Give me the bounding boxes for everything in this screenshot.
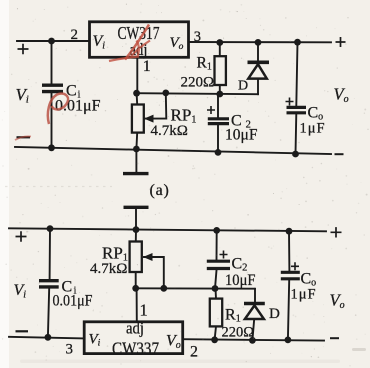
- scan smudge artifacts: [20, 360, 340, 364]
- node adj-RP1 (b): [132, 285, 139, 292]
- potentiometer RP1 (a) wiper arrowhead: [144, 115, 154, 123]
- node adj-wiper (b): [160, 285, 167, 292]
- wire C2 column (b): [215, 230, 217, 288]
- op-amp box U2 CW337: [84, 322, 183, 354]
- wire Co column (b): [288, 231, 290, 340]
- node Ci-top (b): [47, 225, 54, 232]
- node Co-bottom (b): [285, 337, 292, 344]
- svg-text:1μF: 1μF: [300, 121, 326, 137]
- red watermark stroke over Ci (a): [48, 94, 68, 124]
- terminal plus right (a): [336, 37, 346, 47]
- svg-text:3: 3: [66, 342, 74, 358]
- terminal minus right (a): [335, 153, 344, 155]
- svg-text:2: 2: [71, 27, 79, 43]
- svg-text:220Ω: 220Ω: [222, 325, 255, 341]
- node R1-top (a): [216, 39, 223, 46]
- ground symbol (a): [123, 172, 149, 175]
- terminal minus left (a): [17, 136, 31, 138]
- svg-text:1: 1: [143, 58, 151, 75]
- wire R1 leads (a): [219, 43, 221, 95]
- diode D (a) cathode bar: [248, 60, 270, 64]
- capacitor C2 (a) polarity plus: [207, 106, 215, 114]
- node ground-rail (b): [133, 226, 140, 233]
- node adj-wiper (a): [162, 90, 169, 97]
- diode D (a) triangle: [248, 64, 266, 78]
- wire pin1 (a): [136, 58, 138, 93]
- svg-text:2: 2: [190, 344, 198, 361]
- svg-text:CW337: CW337: [112, 339, 159, 359]
- capacitor C2 (b) polarity plus: [220, 251, 228, 259]
- wire top rail right (a) pin3 to +: [190, 41, 332, 43]
- node D-top (a): [255, 39, 262, 46]
- wire diode leads (b): [252, 289, 255, 341]
- terminal plus right (b): [331, 227, 342, 237]
- node Ci-top (a): [48, 38, 55, 45]
- capacitor Ci (b) plates: [39, 281, 59, 287]
- capacitor Ci (a) plates: [42, 85, 63, 91]
- svg-text:1μF: 1μF: [291, 287, 317, 303]
- wire RP1 wiper (a): [145, 93, 166, 119]
- wire top rail left (a): [17, 40, 89, 42]
- red watermark stroke over adj: [109, 41, 150, 62]
- node Co-top (b): [286, 228, 293, 235]
- svg-text:220Ω: 220Ω: [181, 75, 215, 91]
- node adj-R1 (a): [216, 91, 223, 98]
- potentiometer RP1 (b) wiper arrowhead: [143, 253, 153, 261]
- terminal plus left (a): [18, 44, 29, 54]
- node adj-pin1 (a): [133, 90, 140, 97]
- red watermark tick at minus (a): [15, 136, 31, 140]
- wire C_i column (a): [51, 41, 53, 148]
- svg-text:D: D: [269, 306, 280, 322]
- terminal plus left (b): [16, 231, 27, 241]
- node R1-bottom (b): [211, 336, 218, 343]
- node RP1-bottom (a): [133, 146, 140, 153]
- diode D (b) triangle: [245, 305, 264, 319]
- wire C2 column (a): [217, 94, 219, 152]
- potentiometer RP1 (b) body: [130, 242, 142, 273]
- svg-text:4.7kΩ: 4.7kΩ: [90, 261, 127, 277]
- wire RP1 leads (b): [135, 230, 137, 288]
- potentiometer RP1 (a) body: [132, 105, 144, 133]
- terminal minus right (b): [330, 337, 339, 339]
- svg-text:(a): (a): [150, 182, 170, 199]
- ground symbol (b): [124, 206, 149, 209]
- wire diode leads (a): [257, 43, 259, 95]
- wire ground lead (a): [135, 149, 137, 172]
- resistor R1 (b) body: [210, 299, 222, 327]
- red watermark stroke over CW317: [125, 25, 149, 60]
- svg-text:3: 3: [194, 29, 201, 45]
- node C2-top (b): [213, 227, 220, 234]
- wire RP1 leads (a): [135, 93, 138, 149]
- capacitor C2 (b) plates: [207, 261, 230, 268]
- capacitor C2 (a) plates: [208, 119, 229, 124]
- svg-text:adj: adj: [126, 319, 144, 338]
- svg-text:0.01μF: 0.01μF: [53, 293, 93, 310]
- wire ground lead (b): [135, 209, 137, 230]
- resistor R1 (a) body: [215, 56, 226, 85]
- node adj-C2 (b): [212, 285, 219, 292]
- diode D (b) cathode bar: [244, 302, 265, 306]
- wire RP1 wiper (b): [144, 257, 164, 288]
- wire bottom rail right (b): [183, 339, 324, 340]
- node D-bottom (b): [249, 337, 256, 344]
- terminal minus left (b): [16, 330, 29, 332]
- wire adj node row (a): [137, 93, 259, 94]
- svg-text:4.7kΩ: 4.7kΩ: [151, 123, 188, 139]
- capacitor Co (a) plates: [287, 107, 307, 112]
- wire pin1 (b): [136, 288, 138, 321]
- wire adj node row (b): [136, 287, 255, 289]
- capacitor Co (b) polarity plus: [291, 262, 299, 270]
- node Co-top (a): [294, 39, 301, 46]
- node Ci-bottom (a): [48, 144, 55, 151]
- node Co-bottom (a): [292, 151, 299, 158]
- wire top rail (b): [9, 228, 326, 231]
- svg-text:1: 1: [140, 301, 148, 320]
- op-amp box U1 CW317: [90, 22, 189, 58]
- wire bottom rail left (b): [9, 337, 84, 339]
- wire R1 leads (b): [215, 289, 216, 340]
- svg-text:0.01μF: 0.01μF: [55, 98, 101, 115]
- capacitor Co (a) polarity plus: [286, 98, 294, 106]
- svg-text:10μF: 10μF: [225, 127, 258, 144]
- capacitor Co (b) plates: [281, 272, 300, 279]
- wire Ci column (b): [48, 229, 50, 338]
- node Ci-bottom (b): [45, 334, 52, 341]
- wire bottom rail (a): [15, 147, 331, 154]
- node C2-bottom (a): [215, 149, 222, 156]
- svg-text:10μF: 10μF: [225, 272, 256, 289]
- svg-text:D: D: [238, 79, 248, 94]
- wire Co column (a): [296, 42, 298, 154]
